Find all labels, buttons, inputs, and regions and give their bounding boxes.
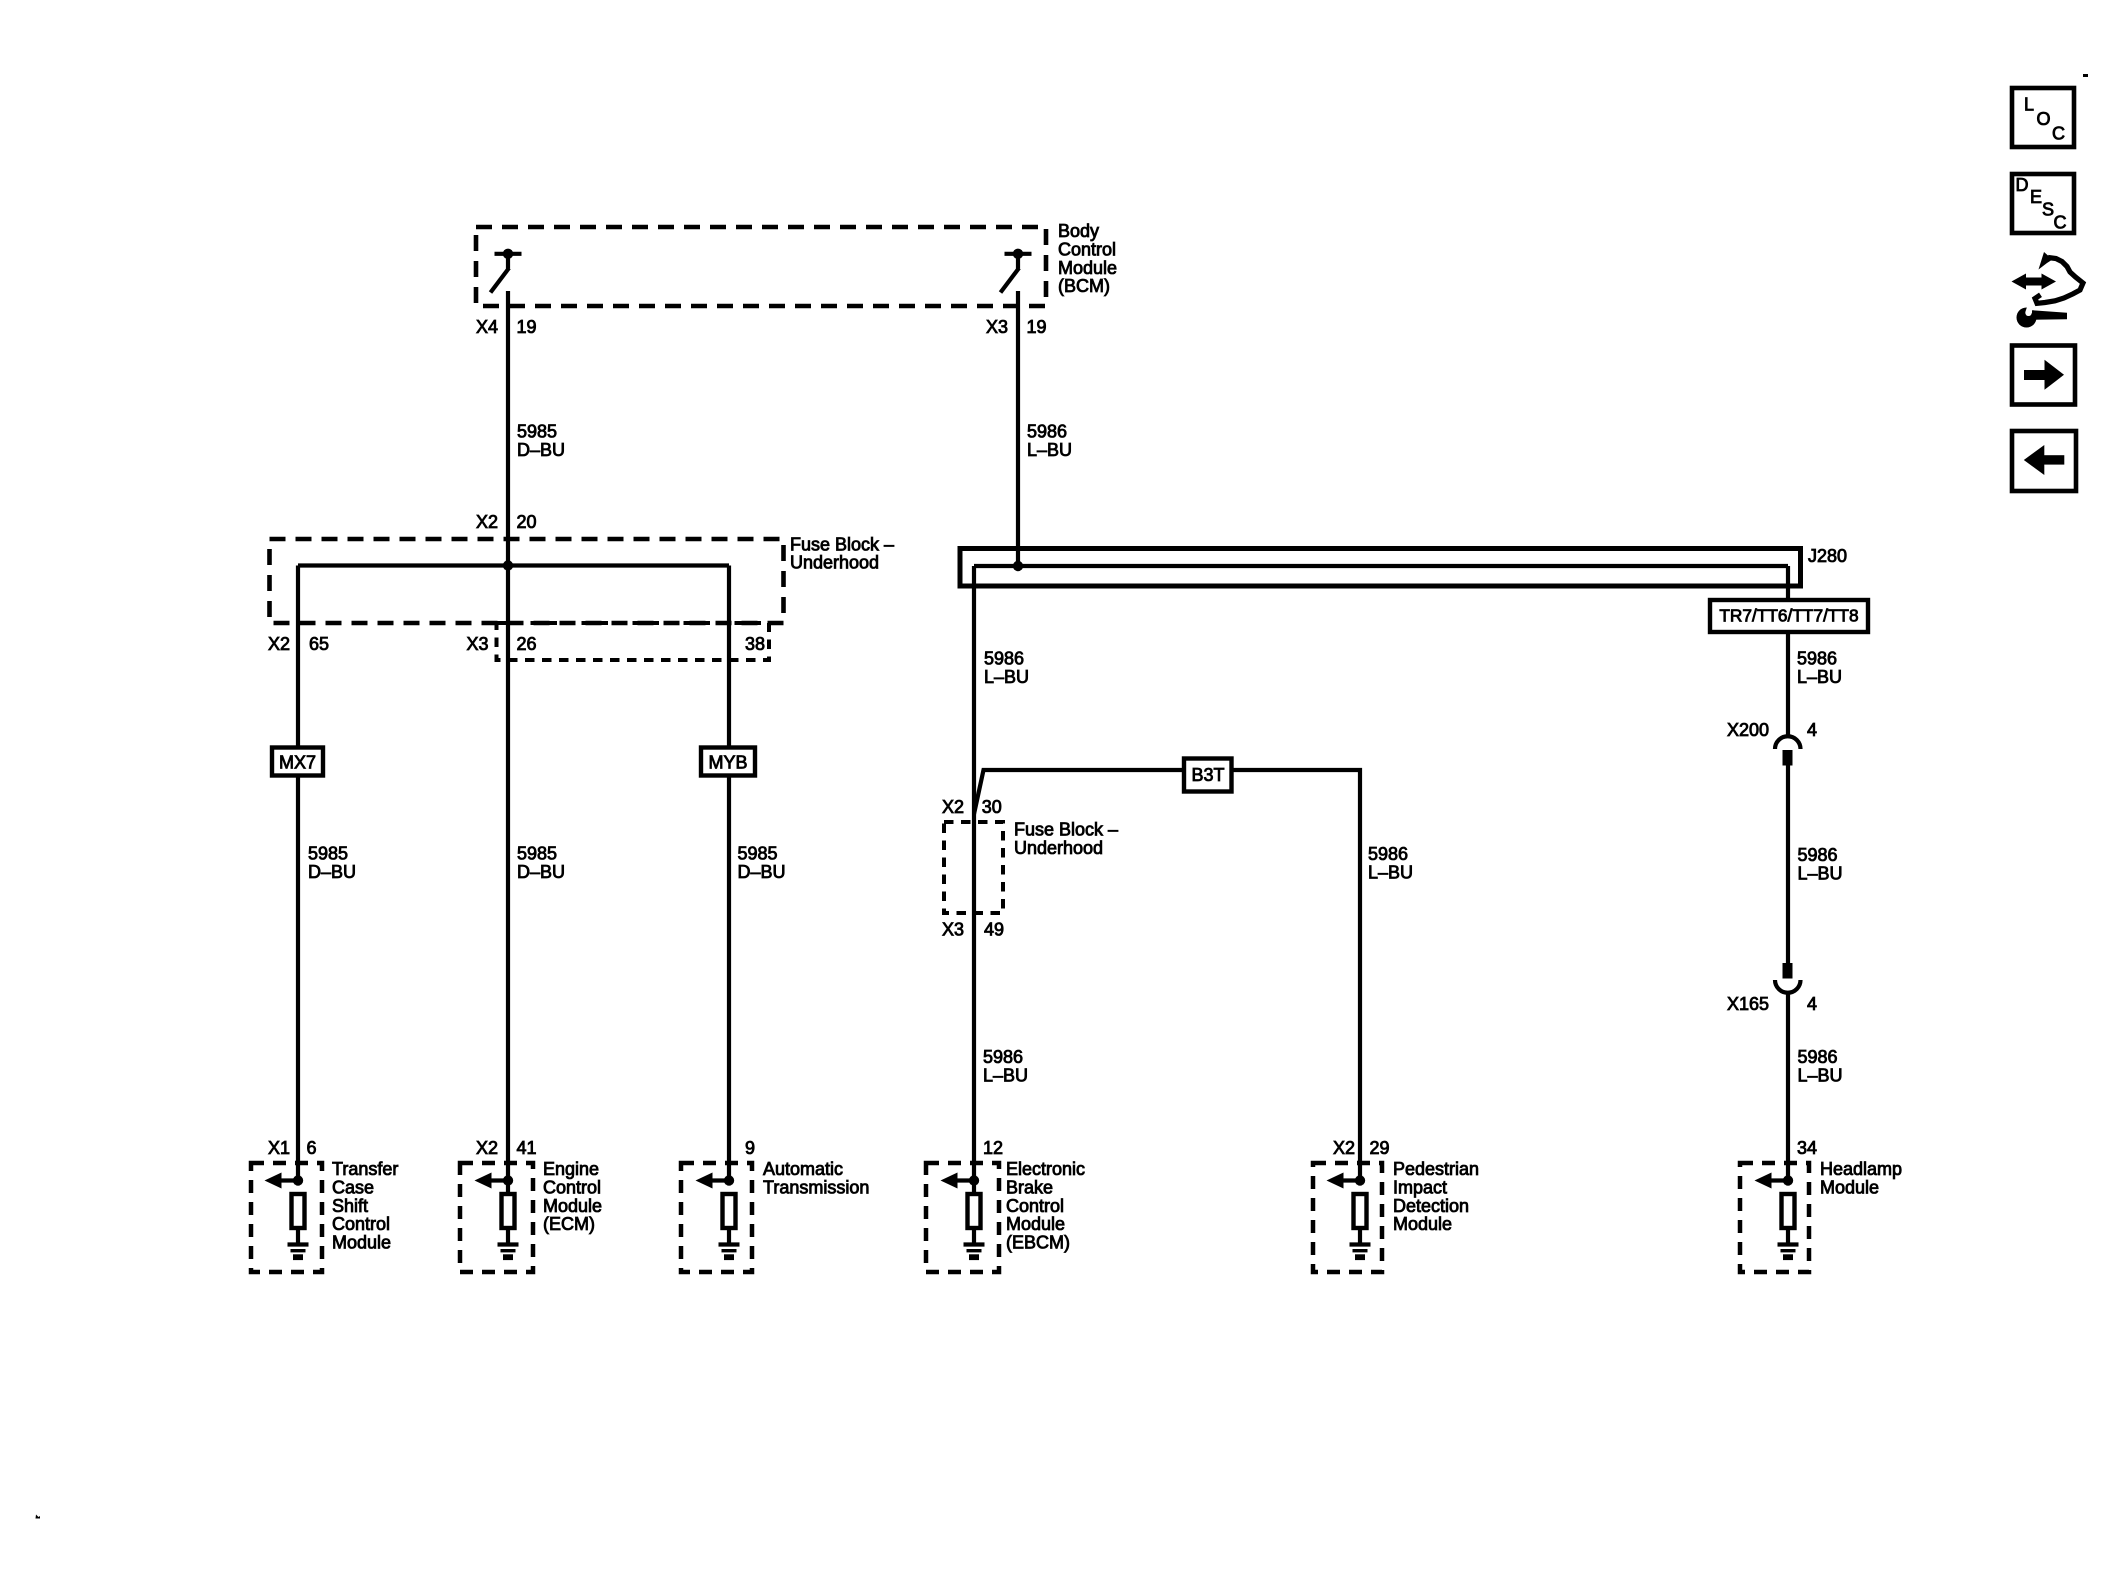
svg-text:Module: Module bbox=[1820, 1177, 1879, 1197]
stray mark bottom left bbox=[36, 1515, 41, 1519]
svg-text:Electronic: Electronic bbox=[1006, 1159, 1085, 1179]
wire label 5986 L-BU (B3T drop) bbox=[1368, 844, 1413, 882]
svg-text:Underhood: Underhood bbox=[1014, 838, 1103, 858]
svg-text:5985: 5985 bbox=[308, 843, 348, 863]
wire 5985 from MYB to Automatic Transmission bbox=[727, 776, 731, 1181]
connector label X165 | 4 bbox=[1727, 994, 1817, 1014]
ground (Pedestrian) bbox=[1350, 1245, 1371, 1258]
svg-text:5986: 5986 bbox=[1797, 649, 1837, 669]
svg-text:Module: Module bbox=[543, 1196, 602, 1216]
svg-text:Module: Module bbox=[332, 1233, 391, 1253]
svg-text:L–BU: L–BU bbox=[1368, 862, 1413, 882]
BCM label bbox=[1058, 221, 1117, 296]
signal arrow (Automatic Transmission) bbox=[696, 1173, 730, 1189]
wire label 5986 L-BU (EBCM lower) bbox=[983, 1047, 1028, 1086]
wire from B3T to Pedestrian module bbox=[1233, 770, 1361, 1181]
svg-text:Brake: Brake bbox=[1006, 1177, 1053, 1197]
svg-text:D–BU: D–BU bbox=[308, 862, 356, 882]
svg-text:5986: 5986 bbox=[1798, 845, 1838, 865]
svg-text:X2: X2 bbox=[942, 797, 964, 817]
previous page arrow icon bbox=[2012, 431, 2076, 491]
wire from fuse X2-65 down to MX7 bbox=[296, 566, 300, 747]
svg-text:X200: X200 bbox=[1727, 720, 1769, 740]
svg-text:5985: 5985 bbox=[517, 421, 557, 441]
Engine Control Module (ECM) label bbox=[543, 1159, 602, 1234]
svg-text:X165: X165 bbox=[1727, 994, 1769, 1014]
svg-text:5986: 5986 bbox=[1798, 1047, 1838, 1067]
svg-text:Shift: Shift bbox=[332, 1196, 368, 1216]
wire 5986 from BCM X3-19 down to J280 bbox=[1016, 291, 1020, 566]
Electronic Brake Control Module dashed box bbox=[926, 1163, 999, 1272]
wire 5986 between X200 and X165 bbox=[1786, 765, 1790, 963]
Transfer Case Shift Control Module dashed box bbox=[251, 1163, 322, 1272]
svg-text:X4: X4 bbox=[476, 317, 498, 337]
fix-it icon: part outline bbox=[2035, 252, 2083, 303]
resistor (ECM input) bbox=[502, 1194, 515, 1228]
svg-text:Headlamp: Headlamp bbox=[1820, 1159, 1902, 1179]
svg-text:4: 4 bbox=[1807, 720, 1817, 740]
Fuse Block - Underhood dashed box (left) bbox=[270, 539, 784, 623]
svg-text:O: O bbox=[2037, 109, 2051, 129]
svg-text:5985: 5985 bbox=[738, 843, 778, 863]
node: junction in Automatic Transmission bbox=[724, 1175, 734, 1185]
svg-text:X2: X2 bbox=[476, 1138, 498, 1158]
Fuse Block X3 connector sub-box bbox=[497, 623, 770, 660]
svg-text:S: S bbox=[2042, 200, 2054, 220]
Pedestrian Impact Detection Module dashed box bbox=[1313, 1163, 1382, 1272]
wire label 5986 L-BU (TR7 drop) bbox=[1797, 649, 1842, 688]
wire to ground (Transfer Case) bbox=[296, 1228, 300, 1244]
svg-text:J280: J280 bbox=[1808, 546, 1847, 566]
wire to ground (Pedestrian) bbox=[1358, 1228, 1362, 1244]
svg-text:5986: 5986 bbox=[984, 649, 1024, 669]
svg-text:L–BU: L–BU bbox=[983, 1066, 1028, 1086]
wire from fuse 38 down to MYB bbox=[727, 566, 731, 747]
svg-text:5986: 5986 bbox=[1368, 844, 1408, 864]
svg-text:Pedestrian: Pedestrian bbox=[1393, 1159, 1479, 1179]
svg-text:Transfer: Transfer bbox=[332, 1159, 398, 1179]
ground (ECM) bbox=[498, 1245, 519, 1258]
pin label X3 | 49 bbox=[942, 919, 1004, 939]
svg-text:26: 26 bbox=[517, 634, 537, 654]
branch wire to B3T bbox=[974, 770, 1184, 814]
svg-text:B3T: B3T bbox=[1191, 765, 1224, 785]
svg-text:5986: 5986 bbox=[983, 1047, 1023, 1067]
signal arrow (Transfer Case) bbox=[265, 1173, 299, 1189]
Body Control Module (BCM) dashed box bbox=[476, 227, 1046, 306]
Automatic Transmission label bbox=[763, 1159, 869, 1197]
signal arrow (Headlamp) bbox=[1755, 1173, 1789, 1189]
svg-text:X3: X3 bbox=[986, 317, 1008, 337]
svg-text:Impact: Impact bbox=[1393, 1177, 1447, 1197]
LOC icon box bbox=[2012, 88, 2074, 147]
Engine Control Module dashed box bbox=[460, 1163, 533, 1272]
svg-text:4: 4 bbox=[1807, 994, 1817, 1014]
svg-text:5985: 5985 bbox=[517, 843, 557, 863]
svg-text:19: 19 bbox=[1027, 317, 1047, 337]
bus wire inside fuse block bbox=[298, 563, 729, 567]
svg-text:(BCM): (BCM) bbox=[1058, 276, 1110, 296]
ground (Headlamp) bbox=[1778, 1245, 1799, 1258]
svg-text:Fuse Block –: Fuse Block – bbox=[1014, 820, 1118, 840]
wire label 5986 L-BU (between connectors) bbox=[1798, 845, 1843, 883]
resistor (Headlamp input) bbox=[1782, 1194, 1795, 1228]
resistor (Pedestrian input) bbox=[1354, 1194, 1367, 1228]
svg-text:Body: Body bbox=[1058, 221, 1099, 241]
wire 5985 from MX7 to Transfer Case module bbox=[296, 776, 300, 1181]
wire to ground (Automatic Transmission) bbox=[727, 1228, 731, 1244]
svg-text:L–BU: L–BU bbox=[1797, 667, 1842, 687]
svg-text:L–BU: L–BU bbox=[984, 667, 1029, 687]
svg-text:Fuse Block –: Fuse Block – bbox=[790, 534, 894, 554]
wire label 5986 L-BU (top) bbox=[1027, 421, 1072, 459]
pin label X3 | 19 bbox=[986, 317, 1047, 337]
fix-it icon: double-headed arrow bbox=[2012, 274, 2057, 290]
svg-text:TR7/TT6/TT7/TT8: TR7/TT6/TT7/TT8 bbox=[1719, 606, 1858, 626]
svg-text:Control: Control bbox=[1058, 239, 1116, 259]
pin label X2 | 41 (ECM) bbox=[476, 1138, 537, 1158]
switch S2 (BCM output driver, connector X3 pin 19) bbox=[1001, 249, 1032, 293]
junction of BCM wire on J280 bbox=[1013, 561, 1023, 571]
svg-text:Automatic: Automatic bbox=[763, 1159, 843, 1179]
Electronic Brake Control Module (EBCM) label bbox=[1006, 1159, 1085, 1253]
pin label X2 | 65 bbox=[268, 634, 329, 654]
pin label X2 | 29 (Pedestrian) bbox=[1333, 1138, 1390, 1158]
svg-text:30: 30 bbox=[982, 797, 1002, 817]
wire from J280 right end down to TR7 bbox=[1786, 566, 1790, 600]
svg-text:Detection: Detection bbox=[1393, 1196, 1469, 1216]
signal arrow (ECM) bbox=[475, 1173, 509, 1189]
switch S1 (BCM output driver, connector X4 pin 19) bbox=[491, 249, 522, 293]
svg-text:L: L bbox=[2024, 95, 2034, 115]
Headlamp Module dashed box bbox=[1740, 1163, 1809, 1272]
Pedestrian Impact Detection Module label bbox=[1393, 1159, 1479, 1234]
fuse MX7 box bbox=[272, 748, 323, 776]
ground (EBCM) bbox=[964, 1245, 985, 1258]
pin label X2 | 30 bbox=[942, 797, 1002, 817]
svg-text:Control: Control bbox=[332, 1214, 390, 1234]
svg-text:(EBCM): (EBCM) bbox=[1006, 1233, 1070, 1253]
svg-text:12: 12 bbox=[983, 1138, 1003, 1158]
Headlamp Module label bbox=[1820, 1159, 1902, 1197]
ground (Automatic Transmission) bbox=[719, 1245, 740, 1258]
svg-text:Underhood: Underhood bbox=[790, 553, 879, 573]
wire to ground (EBCM) bbox=[972, 1228, 976, 1244]
wire to ground (ECM) bbox=[506, 1228, 510, 1244]
svg-text:MYB: MYB bbox=[708, 753, 747, 773]
connector label X200 | 4 bbox=[1727, 720, 1817, 740]
pin label X2 | 20 bbox=[476, 512, 537, 532]
svg-text:E: E bbox=[2030, 187, 2042, 207]
pin label X4 | 19 bbox=[476, 317, 537, 337]
fuse TR7/TT6/TT7/TT8 box bbox=[1710, 600, 1868, 632]
ground (Transfer Case) bbox=[288, 1245, 309, 1258]
svg-text:49: 49 bbox=[984, 919, 1004, 939]
svg-text:6: 6 bbox=[307, 1138, 317, 1158]
node: junction in Headlamp module bbox=[1783, 1175, 1793, 1185]
wire label 5985 D-BU (top) bbox=[517, 421, 565, 459]
svg-text:5986: 5986 bbox=[1027, 421, 1067, 441]
svg-text:20: 20 bbox=[517, 512, 537, 532]
node: junction in EBCM bbox=[969, 1175, 979, 1185]
connector X200 female half bbox=[1775, 736, 1801, 749]
svg-text:X2: X2 bbox=[476, 512, 498, 532]
next page arrow icon bbox=[2012, 346, 2075, 405]
svg-text:Control: Control bbox=[1006, 1196, 1064, 1216]
wire label 5986 L-BU (below J280) bbox=[984, 649, 1029, 688]
svg-text:38: 38 bbox=[745, 634, 765, 654]
Fuse Block label (right) bbox=[1014, 820, 1118, 858]
wire from X165 down to Headlamp module bbox=[1786, 992, 1790, 1181]
wire to ground (Headlamp) bbox=[1786, 1228, 1790, 1244]
svg-text:Control: Control bbox=[543, 1177, 601, 1197]
LOC icon letters bbox=[2024, 95, 2065, 144]
Fuse Block - Underhood dashed box (right small) bbox=[944, 822, 1003, 913]
wire from TR7 box down to X200 bbox=[1786, 632, 1790, 736]
svg-text:X1: X1 bbox=[268, 1138, 290, 1158]
svg-text:X2: X2 bbox=[1333, 1138, 1355, 1158]
signal arrow (Pedestrian) bbox=[1327, 1173, 1361, 1189]
svg-text:D–BU: D–BU bbox=[738, 862, 786, 882]
wire label 5985 D-BU (left) bbox=[308, 843, 356, 881]
svg-text:MX7: MX7 bbox=[279, 753, 316, 773]
node: junction in Transfer Case module bbox=[293, 1175, 303, 1185]
resistor (EBCM input) bbox=[968, 1194, 981, 1228]
fuse MYB box bbox=[701, 748, 755, 776]
svg-text:D–BU: D–BU bbox=[517, 862, 565, 882]
svg-text:C: C bbox=[2054, 213, 2067, 233]
svg-text:X3: X3 bbox=[466, 634, 488, 654]
svg-text:Module: Module bbox=[1006, 1214, 1065, 1234]
wire label 5986 L-BU (headlamp) bbox=[1798, 1047, 1843, 1086]
DESC icon letters bbox=[2016, 175, 2067, 233]
node: junction in ECM bbox=[503, 1175, 513, 1185]
svg-text:Engine: Engine bbox=[543, 1159, 599, 1179]
Transfer Case Shift Control Module label bbox=[332, 1159, 398, 1253]
svg-text:(ECM): (ECM) bbox=[543, 1214, 595, 1234]
pin label X1 | 6 (Transfer Case) bbox=[268, 1138, 317, 1158]
fix-it icon: wrench bbox=[2017, 304, 2068, 328]
signal arrow (EBCM) bbox=[941, 1173, 975, 1189]
svg-text:X2: X2 bbox=[268, 634, 290, 654]
fuse B3T box bbox=[1184, 759, 1232, 792]
resistor (Automatic Transmission input) bbox=[723, 1194, 736, 1228]
svg-text:41: 41 bbox=[517, 1138, 537, 1158]
svg-text:L–BU: L–BU bbox=[1027, 440, 1072, 460]
svg-text:Module: Module bbox=[1393, 1214, 1452, 1234]
svg-text:D: D bbox=[2016, 175, 2029, 195]
wire 5986 from J280 down to EBCM bbox=[972, 566, 976, 1195]
svg-text:Transmission: Transmission bbox=[763, 1177, 869, 1197]
junction at fuse block bbox=[503, 560, 513, 570]
svg-text:29: 29 bbox=[1370, 1138, 1390, 1158]
svg-text:Module: Module bbox=[1058, 258, 1117, 278]
svg-text:D–BU: D–BU bbox=[517, 440, 565, 460]
Fuse Block label (left) bbox=[790, 534, 894, 572]
resistor (Transfer Case input) bbox=[292, 1194, 305, 1228]
svg-text:C: C bbox=[2052, 124, 2065, 144]
svg-text:65: 65 bbox=[309, 634, 329, 654]
pin label X3 | 26 bbox=[466, 634, 536, 654]
connector X165 female half bbox=[1775, 980, 1801, 993]
Automatic Transmission dashed box bbox=[681, 1163, 752, 1272]
svg-text:Case: Case bbox=[332, 1177, 374, 1197]
splice pack J280 inner bus bar bbox=[974, 564, 1788, 568]
wire label 5985 D-BU (right) bbox=[738, 843, 786, 881]
svg-text:19: 19 bbox=[517, 317, 537, 337]
svg-text:9: 9 bbox=[745, 1138, 755, 1158]
wire label 5985 D-BU (middle) bbox=[517, 843, 565, 881]
node: junction in Pedestrian module bbox=[1355, 1175, 1365, 1185]
wire 5985 from BCM X4-19 down to ECM bbox=[506, 291, 510, 1195]
svg-text:34: 34 bbox=[1797, 1138, 1817, 1158]
splice pack J280 outer box bbox=[960, 549, 1801, 587]
connector X200 male terminal bbox=[1783, 750, 1793, 766]
svg-text:X3: X3 bbox=[942, 919, 964, 939]
connector X165 male terminal bbox=[1783, 963, 1793, 979]
DESC icon box bbox=[2012, 174, 2074, 233]
svg-text:L–BU: L–BU bbox=[1798, 863, 1843, 883]
stray mark top right bbox=[2083, 74, 2088, 77]
svg-text:L–BU: L–BU bbox=[1798, 1066, 1843, 1086]
